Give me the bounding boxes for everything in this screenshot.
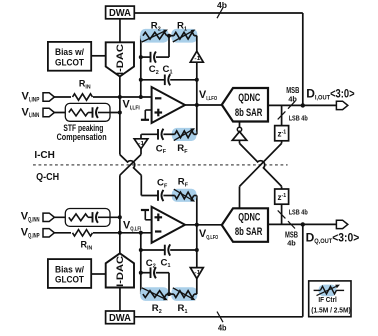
- svg-text:DWA: DWA: [109, 313, 131, 324]
- svg-text:-1: -1: [138, 141, 144, 147]
- svg-text:LSB 4b: LSB 4b: [289, 207, 308, 216]
- svg-text:4b: 4b: [287, 238, 296, 247]
- svg-text:QDNC: QDNC: [238, 212, 260, 224]
- svg-text:4b: 4b: [217, 1, 227, 10]
- svg-text:4b: 4b: [288, 94, 297, 103]
- svg-text:GLCOT: GLCOT: [55, 57, 84, 68]
- svg-text:DI,OUT<3:0>: DI,OUT<3:0>: [306, 87, 354, 102]
- svg-text:DQ,OUT<3:0>: DQ,OUT<3:0>: [306, 230, 360, 245]
- svg-text:IF Ctrl: IF Ctrl: [318, 295, 337, 304]
- svg-text:4b: 4b: [218, 323, 227, 331]
- svg-text:8b SAR: 8b SAR: [235, 107, 263, 119]
- svg-text:8b SAR: 8b SAR: [235, 226, 263, 238]
- svg-text:I-DAC: I-DAC: [114, 44, 125, 75]
- svg-text:I-DAC: I-DAC: [114, 256, 125, 287]
- svg-text:QDNC: QDNC: [238, 92, 260, 104]
- svg-text:Q-CH: Q-CH: [36, 172, 59, 183]
- svg-text:DWA: DWA: [109, 8, 131, 19]
- svg-text:Compensation: Compensation: [57, 132, 107, 142]
- svg-text:I-CH: I-CH: [34, 150, 55, 161]
- svg-text:-1: -1: [194, 56, 200, 62]
- svg-text:LSB 4b: LSB 4b: [289, 113, 308, 122]
- svg-text:(1.5M / 2.5M): (1.5M / 2.5M): [311, 306, 351, 315]
- svg-text:-1: -1: [194, 270, 200, 276]
- svg-text:GLCOT: GLCOT: [55, 275, 84, 286]
